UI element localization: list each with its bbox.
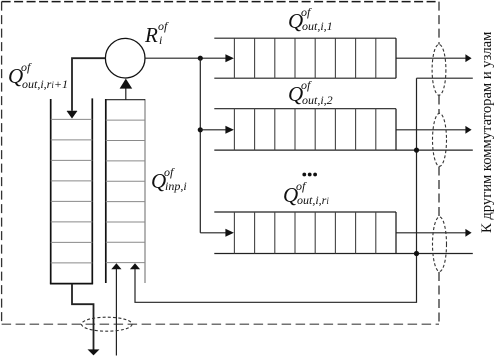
junction dot (416.5,150): [414, 148, 419, 153]
outgoing link wire queue 3: [396, 232, 466, 234]
arrowhead out 1: [465, 54, 471, 62]
outgoing link wire queue 1: [396, 57, 466, 59]
stack A (output queue to lower node) left wall: [50, 99, 52, 284]
queue 1 bottom line: [214, 77, 396, 79]
stack B (input queue Q_inp) left wall: [105, 99, 107, 283]
junction dot node (200,130): [198, 127, 203, 132]
queue 2 right wall: [395, 109, 397, 150]
distribution vertical wire x=200: [199, 58, 201, 233]
queue 2 cell dividers: [234, 109, 375, 150]
wire into queue 2: [200, 129, 226, 131]
node boundary dashed border: top: [2, 1, 439, 3]
label R_i (server): [145, 25, 158, 46]
queue 3 cell dividers: [234, 212, 375, 254]
stack A right wall: [91, 98, 93, 283]
queue 1 right wall: [395, 38, 397, 78]
incoming link wire 1: [417, 77, 473, 79]
wire elbow into queue 3: [200, 232, 226, 234]
arrowhead up into stack B (feedback): [130, 263, 140, 269]
wire circle to distribution node: [145, 57, 226, 59]
label Q_out,i,r_i: [283, 185, 298, 206]
label Q_out,i,r_i+1 (top-left): [8, 66, 23, 87]
arrowhead out 3: [465, 229, 471, 237]
arrowhead out 2: [465, 126, 471, 134]
node boundary dashed border: right (gaps at link-bundle ellipses): [438, 2, 440, 325]
queue 2 bottom line (extends right as incoming link): [214, 149, 473, 151]
label Q_inp,i: [151, 171, 166, 192]
stack A cell lines: [51, 119, 93, 263]
queue 1 top line: [214, 37, 396, 39]
stack B top cap: [106, 99, 145, 101]
arrowhead down (to lower node): [88, 349, 100, 355]
junction dot node (200,58): [198, 56, 203, 61]
arrowhead into queue 1: [225, 54, 234, 62]
queue 3 right wall: [395, 212, 397, 254]
label Q_out,i,1: [288, 11, 303, 32]
arrowhead into queue 3: [225, 229, 234, 237]
wire circle to stack A (left elbow): [72, 58, 105, 111]
rotated caption: to other switches and nodes: [479, 32, 496, 233]
link bundle ellipse 1 (dashed): [432, 44, 446, 95]
stack B right wall: [144, 99, 146, 283]
up arrow wire stack B to circle: [125, 88, 127, 99]
stack A output wire (step down to lower node): [72, 284, 94, 350]
node boundary dashed border: left: [1, 2, 3, 325]
ellipsis dots between queue 2 and 3: [302, 173, 306, 177]
link bundle ellipse bottom (dashed, horizontal): [82, 317, 133, 331]
incoming wire from below into stack B: [115, 269, 117, 356]
arrowhead up into circle: [120, 79, 133, 89]
arrowhead up into stack B (external input): [111, 263, 121, 269]
queue 3 top line: [214, 211, 396, 213]
queue 2 top line: [214, 108, 396, 110]
junction dot (416.5,253.4): [414, 251, 419, 256]
node boundary dashed border: bottom: [2, 323, 439, 325]
outgoing link wire queue 2: [396, 129, 466, 131]
arrowhead into queue 2: [225, 126, 234, 134]
link bundle ellipse 3 (dashed): [433, 217, 447, 272]
queue 3 bottom line (extends right as incoming link): [214, 253, 473, 255]
queue 1 cell dividers: [234, 38, 375, 78]
label Q_out,i,2: [288, 84, 303, 105]
server circle R_i: [105, 38, 145, 78]
link bundle ellipse 2 (dashed): [433, 113, 447, 166]
collection vertical wire + feedback to stack B: [135, 78, 417, 302]
arrowhead down into stack A: [67, 111, 77, 118]
stack B cell lines: [106, 120, 145, 263]
stack A bottom cap: [50, 283, 93, 285]
